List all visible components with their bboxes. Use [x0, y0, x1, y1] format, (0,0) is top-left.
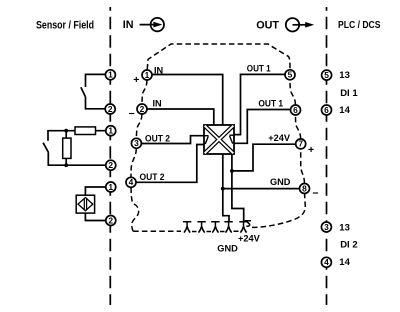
svg-text:1: 1 — [108, 70, 113, 80]
wire — [86, 97, 106, 109]
wire OUT1 term5 — [234, 74, 285, 134]
terminal 8 — [300, 184, 310, 194]
field terminal 1b — [106, 126, 116, 136]
header texts — [36, 19, 381, 32]
connector 2 — [197, 222, 205, 233]
resistor R2 (parallel) — [63, 138, 71, 158]
resistor R1 (series) — [75, 127, 96, 135]
bottom dashes between connector forks — [192, 230, 239, 232]
svg-text:1: 1 — [145, 70, 150, 80]
svg-text:DI 1: DI 1 — [340, 88, 358, 99]
svg-text:GND: GND — [217, 243, 238, 253]
wire — [48, 152, 105, 165]
node junction (R2 bottom) — [64, 163, 68, 167]
svg-text:1: 1 — [108, 126, 113, 136]
relay contact OUT2 (left edge) — [204, 136, 209, 144]
top-left shoulder — [147, 44, 290, 70]
wire — [109, 7, 111, 305]
terminal 7 — [296, 139, 306, 149]
svg-text:13: 13 — [339, 70, 350, 81]
field terminal 1c — [106, 182, 116, 192]
svg-text:Sensor / Field: Sensor / Field — [36, 20, 94, 32]
svg-text:4: 4 — [324, 257, 329, 267]
terminal 1 — [142, 70, 152, 80]
svg-text:2: 2 — [108, 160, 113, 170]
svg-text:IN: IN — [154, 66, 164, 76]
X double diagonals — [206, 127, 233, 153]
wire OUT1 term6 — [234, 110, 291, 144]
svg-text:14: 14 — [339, 105, 350, 116]
svg-text:PLC / DCS: PLC / DCS — [338, 20, 381, 31]
svg-text:4: 4 — [129, 177, 134, 187]
terminal 3 — [131, 138, 141, 148]
svg-text:+24V: +24V — [238, 233, 261, 243]
left side scallops 1-2,2-3,3-4 — [142, 80, 147, 104]
bottom edge — [133, 230, 181, 232]
svg-text:OUT 2: OUT 2 — [140, 172, 165, 182]
svg-text:6: 6 — [293, 105, 298, 115]
svg-text:OUT: OUT — [256, 19, 279, 31]
switch S1 blade — [81, 87, 86, 97]
node dot +24V — [230, 169, 234, 173]
IN direction icon — [140, 18, 164, 31]
wire GND bus — [223, 154, 229, 222]
svg-text:14: 14 — [339, 257, 350, 268]
node junction (R2 top) — [64, 129, 68, 133]
svg-text:5: 5 — [288, 70, 293, 80]
svg-text:7: 7 — [298, 139, 303, 149]
connector 3 — [211, 222, 219, 233]
terminal 5 — [285, 70, 295, 80]
svg-text:IN: IN — [153, 98, 163, 108]
PLC terminal 6 — [322, 105, 332, 115]
OUT direction icon — [286, 18, 314, 31]
wire — [85, 187, 105, 195]
svg-text:GND: GND — [270, 177, 291, 187]
svg-text:13: 13 — [339, 222, 350, 233]
PLC terminal 5 — [322, 70, 332, 80]
wire OUT2 term4 — [136, 145, 204, 183]
wire — [85, 213, 105, 220]
wire — [86, 74, 106, 87]
PLC terminal 3 — [321, 222, 331, 232]
svg-text:−: − — [129, 108, 135, 120]
wire — [48, 131, 106, 141]
svg-text:DI 2: DI 2 — [340, 240, 357, 251]
wire — [131, 44, 305, 232]
wire +24V bus — [232, 154, 244, 222]
svg-text:OUT 2: OUT 2 — [145, 134, 170, 144]
wire +24V term7 — [232, 144, 296, 171]
svg-text:8: 8 — [302, 183, 307, 193]
svg-text:IN: IN — [123, 19, 134, 31]
right side scallops 8-7,7-6,6-5 — [301, 149, 305, 183]
terminal 6 — [291, 105, 301, 115]
field terminal 2b — [106, 160, 116, 170]
node dot GND — [221, 187, 225, 191]
proximity sensor B1 — [76, 195, 94, 213]
svg-text:OUT 1: OUT 1 — [258, 98, 283, 108]
svg-text:6: 6 — [324, 105, 329, 115]
svg-text:2: 2 — [108, 215, 113, 225]
svg-text:−: − — [312, 187, 318, 199]
connector 4 — [224, 222, 232, 233]
bottom-right rise to terminal 8 — [246, 221, 251, 227]
bottom-left drop and curl — [131, 188, 139, 232]
connector 1 — [183, 222, 191, 233]
svg-text:+: + — [308, 144, 314, 156]
field terminal 1a — [105, 70, 115, 80]
svg-text:1: 1 — [108, 182, 113, 192]
field terminal 2c — [106, 216, 116, 226]
wire IN+ term1 — [152, 75, 223, 126]
terminal 2 — [137, 104, 147, 114]
svg-text:2: 2 — [108, 104, 113, 114]
relay contact OUT1 (right edge) — [229, 135, 234, 143]
svg-text:+24V: +24V — [268, 133, 291, 143]
PLC terminal 4 — [321, 257, 331, 267]
connector 5 (+24V) — [239, 222, 247, 233]
svg-text:OUT 1: OUT 1 — [247, 64, 271, 74]
wire IN- term2 — [147, 109, 214, 125]
svg-text:3: 3 — [324, 222, 329, 232]
wire — [65, 131, 67, 138]
svg-text:5: 5 — [324, 70, 329, 80]
svg-text:2: 2 — [140, 104, 145, 114]
wire OUT2 term3 — [141, 136, 204, 144]
wire — [326, 7, 328, 305]
switch S2 blade — [43, 143, 48, 153]
wire — [65, 158, 67, 165]
field terminal 2a — [105, 104, 115, 114]
svg-text:3: 3 — [134, 138, 139, 148]
wire GND term8 — [223, 188, 300, 190]
svg-text:+: + — [133, 74, 139, 86]
terminal 4 — [126, 177, 136, 187]
